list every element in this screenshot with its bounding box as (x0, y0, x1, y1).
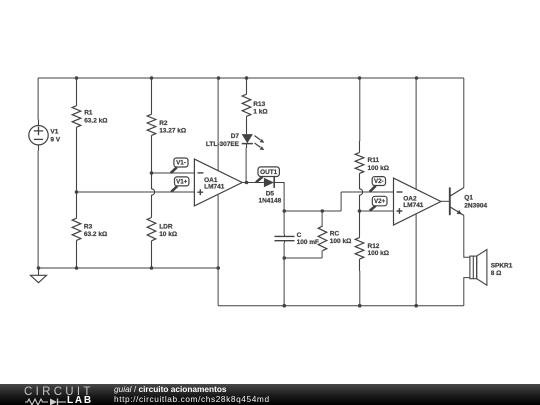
wire top rail (38, 77, 464, 79)
svg-text:1 kΩ: 1 kΩ (253, 109, 267, 116)
node flag V1- (171, 158, 188, 173)
wire D7 to output node (245, 148, 247, 183)
logo resistor-diode icon (25, 398, 67, 405)
svg-text:100 kΩ: 100 kΩ (368, 250, 389, 257)
svg-text:V1-: V1- (176, 159, 186, 166)
wire C top lead (283, 211, 285, 234)
svg-text:C: C (297, 232, 302, 239)
op-amp OA2 (394, 178, 441, 225)
svg-text:10 kΩ: 10 kΩ (159, 231, 177, 238)
ground (30, 268, 46, 283)
svg-text:R3: R3 (84, 223, 93, 230)
wire D7 cathode stub (246, 144, 248, 149)
svg-text:R12: R12 (368, 243, 380, 250)
wire R13 lead top (246, 78, 248, 94)
wire bottom-right rail (218, 305, 464, 307)
wire speaker bottom return (464, 278, 470, 306)
wire C bottom lead (283, 243, 285, 258)
wire R3 lead bottom (76, 240, 78, 268)
node D5/C/RC row (283, 209, 287, 213)
wire OA2 V+ stub (415, 78, 417, 189)
wire bottom jog (217, 268, 219, 306)
wire C to bottom rail (283, 258, 285, 306)
wire OA1 plus input (77, 191, 195, 193)
wire R1 lead top (76, 78, 78, 106)
wire LDR lead bottom (151, 241, 153, 268)
wire left rail upper (37, 78, 39, 120)
wire RC bottom row (284, 257, 322, 259)
node OA1 output (245, 181, 249, 185)
wire OA2 plus input (360, 210, 394, 212)
wire RC bottom lead (321, 251, 323, 258)
svg-text:13.27 kΩ: 13.27 kΩ (159, 128, 186, 135)
wire Q1 emitter to speaker (464, 215, 470, 257)
svg-text:1N4148: 1N4148 (259, 197, 282, 204)
resistor LDR (147, 218, 156, 241)
svg-text:RC: RC (330, 231, 340, 238)
svg-text:100 kΩ: 100 kΩ (330, 238, 351, 245)
diode D5 (264, 177, 274, 188)
svg-text:OUT1: OUT1 (260, 169, 277, 176)
node flag V2- (370, 177, 386, 192)
resistor R1 (72, 106, 81, 128)
svg-text:R2: R2 (159, 120, 168, 127)
node bottom-right rail junctions (283, 304, 287, 308)
svg-text:D7: D7 (231, 133, 240, 140)
svg-text:63.2 kΩ: 63.2 kΩ (84, 117, 107, 124)
resistor R2 (147, 114, 156, 135)
svg-text:Q1: Q1 (464, 195, 473, 202)
wire D5 cathode to node (274, 183, 284, 212)
CircuitLab logo (24, 387, 94, 399)
wire OA1 V- stub (217, 194, 219, 268)
svg-text:63.2 kΩ: 63.2 kΩ (84, 231, 107, 238)
wire node row to step (284, 210, 341, 212)
transistor Q1 (450, 187, 464, 215)
wire OA1 minus input (152, 172, 195, 174)
node C bottom (283, 256, 287, 260)
svg-text:LM741: LM741 (204, 183, 225, 190)
wire OA2 output to Q1 base (441, 200, 450, 202)
speaker SPKR1 (470, 250, 487, 286)
resistor R3 (72, 218, 81, 240)
resistor R11 (355, 153, 364, 174)
node top rail junctions (75, 76, 79, 80)
voltage source V1 (29, 126, 48, 145)
wire RC top lead (321, 211, 323, 226)
node flag V2+ (370, 196, 387, 210)
svg-text:R1: R1 (84, 110, 93, 117)
footer caption (114, 385, 270, 404)
wire OA2 V- stub (415, 213, 417, 305)
wire R1-R3 column middle (76, 127, 78, 218)
svg-text:100 kΩ: 100 kΩ (368, 165, 389, 172)
wire bottom-left rail (38, 267, 218, 269)
node bottom-left rail junctions (37, 266, 41, 270)
resistor R13 (242, 94, 251, 116)
wire right rail to collector (463, 78, 465, 188)
node flag V1+ (171, 177, 189, 192)
wire R2 lead top (151, 78, 153, 114)
wire R12 bottom lead lower (359, 271, 361, 306)
wire OA1 output (242, 182, 264, 184)
wire C plate stubs (284, 234, 286, 243)
svg-text:LM741: LM741 (403, 202, 424, 209)
wire V1 lead stubs (38, 120, 40, 151)
capacitor C (275, 236, 295, 240)
Q1 emitter arrow (457, 210, 462, 215)
wire OA1 V+ stub (217, 78, 219, 171)
resistor R12 (355, 238, 364, 260)
svg-text:LTL-307EE: LTL-307EE (206, 141, 240, 148)
node flag OUT1 (256, 167, 279, 182)
svg-text:V2+: V2+ (374, 198, 386, 205)
svg-text:R11: R11 (368, 157, 380, 164)
svg-text:LDR: LDR (159, 223, 173, 230)
wire R2-LDR column middle with hop (152, 135, 155, 217)
footer bar (0, 384, 540, 405)
svg-text:SPKR1: SPKR1 (491, 262, 513, 269)
wire R11 top lead upper (359, 78, 361, 141)
svg-text:V1+: V1+ (176, 178, 188, 185)
svg-text:R13: R13 (253, 101, 265, 108)
svg-text:V2-: V2- (374, 178, 384, 185)
svg-text:9 V: 9 V (50, 136, 60, 143)
wire left rail lower (37, 151, 39, 269)
op-amp OA1 (194, 159, 242, 206)
wire step up (340, 192, 342, 211)
node R2/LDR divider (150, 171, 154, 175)
node R1/R3 divider (75, 190, 79, 194)
wire R11 lead bottom with hop (360, 141, 363, 238)
resistor RC (318, 226, 327, 251)
wire R12 lead bottom (359, 259, 361, 271)
wire R13 to D7 (246, 116, 248, 134)
svg-text:100 mF: 100 mF (297, 239, 319, 246)
svg-text:V1: V1 (50, 129, 58, 136)
LED D7 (242, 134, 265, 150)
svg-text:2N3904: 2N3904 (464, 203, 487, 210)
svg-text:8 Ω: 8 Ω (491, 270, 502, 277)
wire step to OA2 minus (341, 191, 393, 193)
